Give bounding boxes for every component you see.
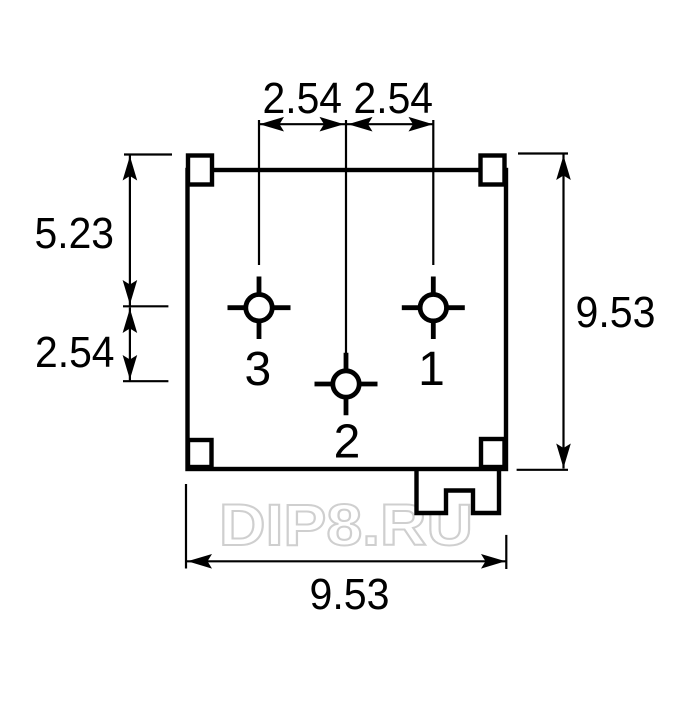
arrow 5.23 top pointing up [123,156,138,181]
right extension line bottom [517,469,568,471]
arrow center pointing left [348,117,373,132]
corner square bottom-left [188,440,212,467]
arrow top-left pointing left [260,117,285,132]
pin 1 circle [420,295,446,321]
top dimension line 2.54 + 2.54 [259,123,433,125]
right dimension line 9.53 [562,155,564,469]
arrow bottom-right pointing right [481,554,506,569]
left extension line top (body top) [124,153,172,155]
pin 2 cross [315,382,378,387]
arrow 5.23 bottom pointing down [123,280,138,305]
svg-text:9.53: 9.53 [310,570,390,619]
pin 2 circle [333,371,359,397]
arrow 2.54 top pointing up [123,309,138,334]
left extension line bottom (pin row 2) [123,380,168,382]
svg-text:2.54: 2.54 [354,74,434,123]
right extension line top [518,152,568,154]
arrow bottom-left pointing left [188,554,213,569]
pin 3 circle [246,295,272,321]
bottom dimension line 9.53 [187,560,506,562]
pin 3 cross [228,305,291,310]
corner square top-left [188,156,212,185]
svg-text:9.53: 9.53 [576,288,656,337]
arrow 2.54 bottom pointing down [123,355,138,380]
bottom extension line right [505,535,507,569]
left dimension line 5.23 [129,155,131,306]
bottom extension line left [185,484,187,569]
svg-text:1: 1 [418,343,445,396]
corner square top-right [481,156,505,185]
arrow top-right pointing right [409,117,434,132]
svg-text:2.54: 2.54 [263,74,343,123]
extension line above pin 1 [432,120,434,265]
extension line above pin 3 [258,120,260,265]
arrow center pointing right [320,117,345,132]
corner square bottom-right [481,439,505,467]
pin 1 cross [402,305,465,310]
svg-text:2.54: 2.54 [35,328,115,377]
svg-text:5.23: 5.23 [35,209,115,258]
arrow 9.53 bottom pointing down [556,444,571,469]
bottom mounting tab with notch [417,469,500,513]
body outline [188,170,507,469]
svg-text:3: 3 [244,343,271,396]
left extension line middle (pin row 3/1) [123,305,168,307]
extension line above pin 2 (center) [345,120,347,353]
svg-text:2: 2 [334,416,361,469]
left dimension line 2.54 (vertical) [129,308,131,381]
arrow 9.53 top pointing up [556,156,571,181]
